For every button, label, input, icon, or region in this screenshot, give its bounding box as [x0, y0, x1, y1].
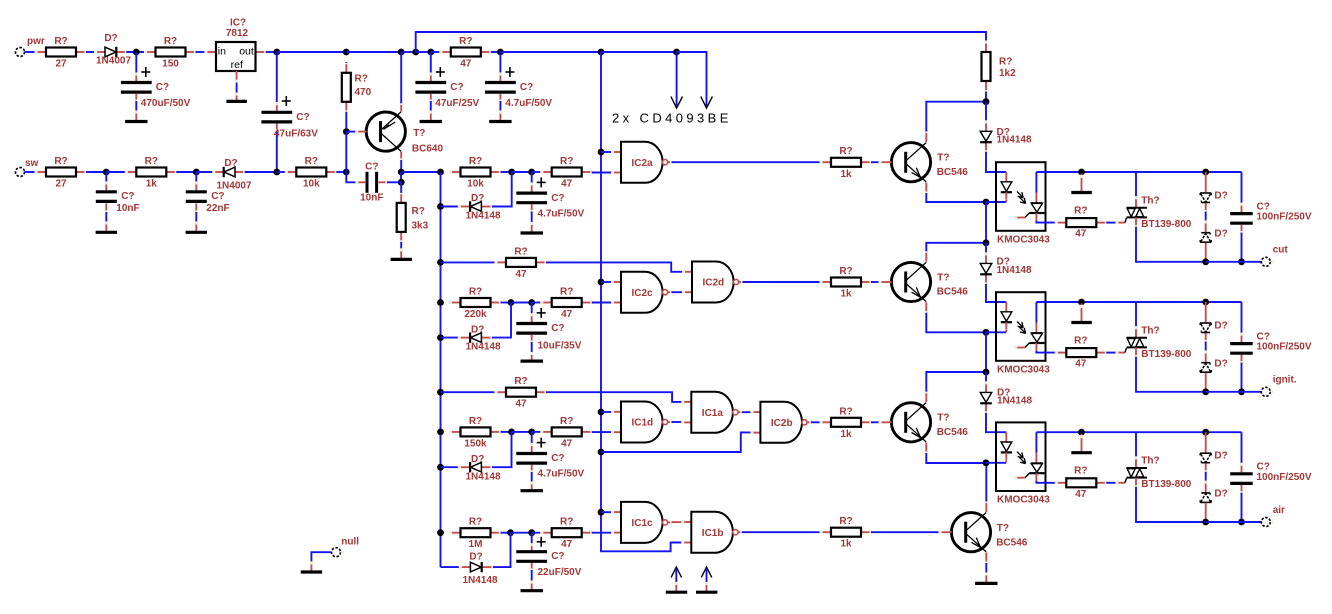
- svg-text:47: 47: [515, 269, 527, 280]
- svg-text:3k3: 3k3: [412, 221, 429, 232]
- wire rail arrow1..arrow2 corner: [677, 52, 707, 54]
- svg-text:C?: C?: [121, 191, 134, 202]
- junction left rail top: [437, 169, 444, 176]
- svg-text:R?: R?: [999, 57, 1012, 68]
- capacitor C? 4.7uF/50V (row C): [516, 432, 584, 489]
- wire ch1 diode..opto anode: [986, 152, 1006, 172]
- junction rowB R47 tap: [437, 259, 444, 266]
- wire T4 collector: [985, 463, 987, 502]
- nand gate IC1d: [611, 402, 673, 443]
- junction rowC 150k tap: [437, 429, 444, 436]
- ground (rowA cap): [521, 231, 544, 234]
- svg-text:100nF/250V: 100nF/250V: [1257, 212, 1312, 223]
- resistor R? 3k3: [397, 191, 429, 243]
- svg-text:IC2d: IC2d: [703, 278, 725, 289]
- svg-text:1N4007: 1N4007: [96, 56, 131, 67]
- svg-text:R?: R?: [54, 36, 67, 47]
- wire rail..R470: [345, 61, 347, 64]
- nand gate IC2c: [611, 272, 673, 313]
- junction rowD 1M tap: [437, 529, 444, 536]
- svg-text:10nF: 10nF: [116, 203, 139, 214]
- junction rowC diode tap: [437, 464, 444, 471]
- svg-text:IC2b: IC2b: [771, 418, 793, 429]
- svg-text:C?: C?: [450, 82, 463, 93]
- resistor R? 150: [144, 36, 197, 70]
- junction ch1 supply: [983, 98, 990, 105]
- svg-text:IC1c: IC1c: [632, 518, 654, 529]
- resistor R? 47 (rail): [439, 36, 492, 70]
- svg-text:47: 47: [515, 399, 527, 410]
- wire R47..triac gate: [1106, 478, 1126, 484]
- svg-text:1k2: 1k2: [999, 68, 1016, 79]
- junction rowB node2: [528, 299, 535, 306]
- svg-text:1k: 1k: [840, 169, 852, 180]
- svg-text:air: air: [1273, 505, 1285, 516]
- transistor T? BC640 (PNP): [355, 102, 443, 162]
- svg-text:27: 27: [55, 179, 67, 190]
- wire rowC rail..diode: [441, 466, 460, 468]
- wire base junction..BC640: [346, 131, 357, 133]
- supply arrow VDD 2: [701, 53, 713, 108]
- label 2x CD4093BE: [612, 111, 732, 126]
- wire rail gaterail..arrow1: [601, 51, 677, 53]
- junction rowA node1: [508, 169, 515, 176]
- wire sw to R: [24, 171, 36, 173]
- svg-text:D?: D?: [1214, 489, 1227, 500]
- wire rail R47..C4u7: [491, 51, 501, 53]
- wire ch3 diode..opto anode: [986, 413, 1006, 432]
- svg-text:R?: R?: [164, 36, 177, 47]
- capacitor C? 100nF/250V (ch2): [1230, 302, 1312, 392]
- wire rail to y32 branch: [401, 51, 416, 53]
- wire gaterail..IC2c top: [601, 281, 613, 283]
- diode D? 1N4148 (ch2): [980, 252, 1032, 285]
- junction rowC node1: [508, 429, 515, 436]
- svg-text:D?: D?: [469, 552, 482, 563]
- svg-text:D?: D?: [471, 324, 484, 335]
- wire IC1d out..IC1a: [672, 421, 683, 423]
- svg-text:22nF: 22nF: [206, 203, 229, 214]
- svg-text:C?: C?: [551, 193, 564, 204]
- svg-text:T?: T?: [937, 153, 949, 164]
- svg-text:T?: T?: [937, 272, 949, 283]
- svg-text:R?: R?: [1074, 205, 1087, 216]
- wire rowB diode..up: [492, 303, 511, 338]
- svg-text:C?: C?: [520, 82, 533, 93]
- wire collector node down: [400, 172, 402, 182]
- ground (VSS arrow 2): [696, 591, 717, 594]
- svg-text:10uF/35V: 10uF/35V: [538, 341, 582, 352]
- wire ch1 bottom rail..terminal: [1206, 261, 1262, 263]
- svg-text:out: out: [239, 46, 254, 58]
- optocoupler KMOC3043 (ch3) box: [996, 422, 1046, 491]
- junction ch1 TVS top: [1202, 169, 1209, 176]
- junction rail BC640 emitter: [398, 49, 405, 56]
- svg-text:D?: D?: [1214, 321, 1227, 332]
- diode D? 1N4148 (row A): [458, 193, 501, 221]
- svg-text:IC2a: IC2a: [632, 158, 654, 169]
- svg-text:47: 47: [561, 438, 573, 449]
- junction gate rail IC2a: [598, 149, 605, 156]
- junction ch2 gnd tap: [1078, 299, 1085, 306]
- wire D1 to node: [126, 51, 145, 53]
- wire rowD node1..node2: [511, 532, 532, 534]
- TVS diode pair D? D? (ch3): [1200, 432, 1228, 522]
- wire rowA node1..node2: [512, 171, 532, 173]
- svg-text:BC546: BC546: [937, 167, 969, 178]
- svg-text:C?: C?: [156, 82, 169, 93]
- opto ch1 phototriac: [1014, 172, 1056, 223]
- svg-text:150k: 150k: [464, 438, 487, 449]
- junction rowD node2: [528, 529, 535, 536]
- junction ch3 gnd tap: [1078, 429, 1085, 436]
- wire 7812 ref to ground: [235, 71, 238, 100]
- svg-text:KMOC3043: KMOC3043: [997, 234, 1050, 245]
- junction sw node2: [193, 169, 200, 176]
- svg-text:D?: D?: [1214, 451, 1227, 462]
- svg-text:D?: D?: [471, 193, 484, 204]
- opto ch3 light arrows: [1017, 452, 1026, 464]
- junction gate rail IC1d: [598, 409, 605, 416]
- svg-text:R?: R?: [839, 266, 852, 277]
- transistor T? BC546 (T2): [879, 250, 969, 314]
- wire BC640 emitter..rail: [400, 52, 402, 103]
- opto ch2 light arrows: [1017, 322, 1026, 334]
- opto ch1 light arrows: [1017, 192, 1026, 204]
- svg-text:IC1b: IC1b: [702, 528, 724, 539]
- wire IC2c out..IC2d: [672, 291, 684, 293]
- wire rail C47u..R47: [431, 51, 441, 53]
- diode D? 1N4007 (pwr): [94, 33, 131, 67]
- svg-text:ref: ref: [231, 59, 243, 71]
- ground (C4.7uF/50V rail): [489, 120, 511, 123]
- opto ch1 label: [997, 234, 1050, 245]
- capacitor C? 10nF (osc): [346, 161, 401, 203]
- supply arrow VDD 1: [671, 52, 683, 108]
- svg-text:sw: sw: [25, 158, 39, 169]
- wire ch2 top rail right: [1136, 301, 1242, 303]
- svg-text:R?: R?: [1074, 335, 1087, 346]
- wire R1k2..junction: [985, 92, 987, 102]
- svg-text:100nF/250V: 100nF/250V: [1257, 472, 1312, 483]
- svg-text:R?: R?: [469, 287, 482, 298]
- svg-text:47uF/63V: 47uF/63V: [274, 129, 318, 140]
- svg-text:Th?: Th?: [1141, 326, 1159, 337]
- wire rowD R47..IC1c: [592, 532, 613, 534]
- svg-text:1k: 1k: [840, 429, 852, 440]
- wire rowA node2..R47: [532, 171, 542, 173]
- wire triac ch2..bottom rail: [1136, 357, 1206, 392]
- junction ch2 cathode node: [983, 329, 990, 336]
- junction rowB diode tap: [437, 334, 444, 341]
- wire ch1 supply..diode: [985, 102, 987, 122]
- junction rowC node2: [528, 429, 535, 436]
- junction rowD node1: [507, 529, 514, 536]
- ground (C22nF): [186, 231, 207, 234]
- svg-text:1N4148: 1N4148: [997, 135, 1032, 146]
- wire opto ch1 top..gnd junction..triac: [1036, 171, 1136, 173]
- junction ch1 TVS bottom: [1202, 258, 1209, 265]
- svg-text:ignit.: ignit.: [1273, 375, 1297, 386]
- wire rowC rail..R47: [441, 391, 497, 393]
- svg-text:KMOC3043: KMOC3043: [997, 495, 1050, 506]
- wire rowD diode..up: [493, 533, 511, 567]
- svg-text:R?: R?: [355, 74, 368, 85]
- wire ch1 cathode..opto: [986, 201, 1006, 203]
- svg-text:470uF/50V: 470uF/50V: [141, 98, 191, 109]
- wire rowD rail..diode: [441, 566, 461, 568]
- wire T1 collector: [926, 102, 986, 132]
- svg-text:R?: R?: [839, 516, 852, 527]
- wire gaterail..IC1c top: [601, 511, 613, 513]
- svg-text:1k: 1k: [840, 289, 852, 300]
- wire left rail vertical: [440, 172, 442, 567]
- svg-text:R?: R?: [560, 287, 573, 298]
- wire IC2a out..R1k: [672, 161, 822, 163]
- wire rowB rail..R47: [441, 261, 497, 263]
- wire node2..D2: [196, 171, 214, 173]
- resistor R? 27 (pwr): [35, 36, 88, 70]
- transistor T? BC546 (T1): [879, 130, 969, 195]
- ground (C10nF sw1): [96, 231, 117, 234]
- capacitor C? 4.7uF/50V (row A): [516, 172, 584, 232]
- resistor R? 1k (row C): [820, 406, 873, 440]
- junction rowA diode tap: [437, 203, 444, 210]
- wire R1k..T1 base: [871, 161, 880, 163]
- ground (C47uF/25V): [420, 120, 442, 123]
- junction gate rail IC2c: [598, 279, 605, 286]
- junction ch2 TVS top: [1202, 299, 1209, 306]
- wire ch2 diode..opto anode: [986, 284, 1006, 302]
- nand gate IC1a: [681, 392, 743, 433]
- junction rowC R47 tap: [437, 389, 444, 396]
- TVS diode pair D? D? (ch2): [1200, 302, 1228, 392]
- wire ch1 top rail right: [1136, 171, 1242, 173]
- ground (rowB cap): [521, 360, 544, 363]
- transistor T? BC546 (T3): [879, 390, 969, 454]
- wire opto ch3 top..gnd junction..triac: [1036, 431, 1136, 433]
- svg-text:C?: C?: [211, 191, 224, 202]
- wire R470..base junction: [345, 112, 347, 132]
- svg-text:1M: 1M: [469, 539, 483, 550]
- svg-text:IC1a: IC1a: [702, 408, 724, 419]
- wire ch2 cathode..opto: [986, 331, 1006, 333]
- wire rowB node1..node2: [511, 302, 532, 304]
- capacitor C? 10nF (sw1): [96, 172, 140, 231]
- ground (R3k3): [391, 248, 412, 259]
- svg-text:1k: 1k: [146, 179, 158, 190]
- svg-text:BC640: BC640: [412, 144, 444, 155]
- wire rail 7812node..R470node: [277, 51, 347, 53]
- ground (ch2): [1071, 304, 1092, 323]
- junction rail C47uF/25V: [427, 49, 434, 56]
- svg-text:T?: T?: [937, 413, 949, 424]
- wire IC1b out..R1k: [742, 531, 821, 533]
- diode D? 1N4148 (ch3): [980, 381, 1032, 414]
- resistor R? 1k (row D): [820, 516, 873, 550]
- resistor R? 1k2: [982, 41, 1017, 94]
- nand gate IC1b: [681, 512, 743, 553]
- resistor R? 150k: [449, 416, 502, 450]
- junction pwr node: [133, 49, 140, 56]
- capacitor C? 100nF/250V (ch1): [1230, 172, 1312, 262]
- svg-text:T?: T?: [997, 523, 1009, 534]
- IC? 7812 regulator: [204, 18, 267, 72]
- svg-text:27: 27: [55, 59, 67, 70]
- wire rowC R47b..IC1d: [592, 431, 613, 433]
- svg-text:R?: R?: [839, 406, 852, 417]
- svg-text:C?: C?: [296, 112, 309, 123]
- wire rowD 1M..node1: [501, 532, 511, 534]
- diode D? 1N4148 (ch1): [980, 120, 1032, 153]
- svg-text:47: 47: [1075, 359, 1087, 370]
- resistor R? 47 (row C in): [540, 416, 593, 450]
- resistor R? 1k (row A): [820, 146, 873, 180]
- wire rail branch..C47uF: [416, 51, 431, 53]
- opto ch2 LED: [1001, 302, 1012, 332]
- wire BC640 collector..node: [400, 160, 402, 172]
- wire IC1a out..IC2b: [742, 411, 752, 413]
- svg-text:4.7uF/50V: 4.7uF/50V: [538, 208, 585, 219]
- optocoupler KMOC3043 (ch1) box: [996, 162, 1046, 231]
- resistor R? 47 (ch1 gate): [1055, 205, 1108, 239]
- nand gate IC2d: [682, 262, 744, 303]
- svg-text:47uF/25V: 47uF/25V: [435, 98, 479, 109]
- terminal null: [332, 537, 360, 557]
- wire R1k..T2 base: [871, 281, 880, 283]
- junction gate rail IC1c: [598, 509, 605, 516]
- opto ch3 LED: [1001, 432, 1012, 462]
- svg-text:D?: D?: [1214, 191, 1227, 202]
- junction rowA node2: [528, 169, 535, 176]
- svg-text:IC1d: IC1d: [632, 418, 654, 429]
- wire ch1 node..T2 collector node: [985, 202, 987, 243]
- wire rowD node2..R47: [532, 532, 542, 534]
- svg-text:KMOC3043: KMOC3043: [997, 364, 1050, 375]
- ground (ch3): [1071, 434, 1092, 453]
- junction ch1 cathode node: [983, 199, 990, 206]
- diode D? 1N4007 (sw): [212, 158, 252, 192]
- svg-text:T?: T?: [413, 128, 425, 139]
- wire R1k..T3 base: [871, 421, 880, 423]
- junction ch3 TVS top: [1202, 429, 1209, 436]
- opto ch2 phototriac: [1014, 302, 1056, 353]
- opto ch2 label: [997, 364, 1050, 375]
- nand gate IC2b: [750, 402, 812, 443]
- svg-text:R?: R?: [560, 517, 573, 528]
- wire T1 emitter: [926, 193, 986, 202]
- wire null..ground: [310, 552, 332, 570]
- wire rowC 150k..node1: [501, 431, 512, 433]
- wire base junction..sw row: [345, 132, 347, 172]
- svg-text:C?: C?: [551, 453, 564, 464]
- wire rowC R47..IC1a top: [546, 392, 683, 402]
- svg-text:BC546: BC546: [996, 537, 1028, 548]
- svg-text:R?: R?: [459, 36, 472, 47]
- wire rowB node2..R47b: [532, 302, 542, 304]
- svg-text:null: null: [341, 537, 359, 548]
- capacitor C? 47uF/25V: [415, 52, 479, 120]
- diode D? 1N4148 (row B): [458, 324, 501, 352]
- wire C10nF node..R3k3: [400, 182, 402, 193]
- svg-text:R?: R?: [560, 156, 573, 167]
- wire R47..triac gate: [1106, 218, 1126, 224]
- nand gate IC1c: [611, 502, 673, 543]
- svg-text:R?: R?: [305, 156, 318, 167]
- svg-text:1N4007: 1N4007: [216, 181, 251, 192]
- svg-text:47: 47: [1075, 229, 1087, 240]
- wire rowA R47..IC2a: [592, 172, 613, 174]
- svg-text:47: 47: [561, 539, 573, 550]
- junction sw base node: [343, 169, 350, 176]
- capacitor C? 22nF: [186, 172, 230, 231]
- junction rail C4.7uF/50V: [497, 49, 504, 56]
- svg-text:R?: R?: [839, 146, 852, 157]
- terminal ignit. (ch2): [1261, 375, 1297, 397]
- opto ch3 label: [997, 495, 1050, 506]
- svg-text:220k: 220k: [464, 309, 487, 320]
- wire gaterail..IC1d top: [601, 411, 613, 413]
- svg-text:BT139-800: BT139-800: [1141, 349, 1191, 360]
- svg-text:7812: 7812: [226, 28, 249, 39]
- capacitor C? 47uF/63V: [261, 52, 318, 172]
- wire rowC node2..R47b: [532, 431, 542, 433]
- svg-text:10nF: 10nF: [360, 193, 383, 204]
- wire top rail y32: [416, 32, 986, 52]
- svg-text:R?: R?: [1074, 466, 1087, 477]
- junction rail VDD arrow1: [673, 49, 680, 56]
- resistor R? 1M: [449, 517, 502, 551]
- wire T2 collector: [926, 243, 986, 252]
- junction ch1 gnd tap: [1078, 169, 1085, 176]
- svg-text:R?: R?: [514, 246, 527, 257]
- ground (rowC cap): [521, 489, 544, 492]
- junction 12V at 7812 out: [273, 49, 280, 56]
- wire T4 emitter: [985, 563, 987, 574]
- ground (7812 ref): [226, 100, 247, 103]
- wire ch3 cathode..opto: [986, 462, 1006, 464]
- wire IC1c out..IC1b: [672, 521, 683, 523]
- svg-text:D?: D?: [1214, 359, 1227, 370]
- svg-text:47: 47: [561, 179, 573, 190]
- wire rowB 220k..node1: [501, 302, 512, 304]
- svg-text:D?: D?: [1214, 229, 1227, 240]
- svg-text:D?: D?: [104, 33, 117, 44]
- svg-text:R?: R?: [514, 376, 527, 387]
- junction rail R470: [343, 49, 350, 56]
- resistor R? 470: [342, 61, 372, 113]
- wire node1..R1k: [106, 171, 126, 173]
- wire sw R27..node1: [86, 171, 106, 173]
- svg-text:47: 47: [561, 309, 573, 320]
- junction ch2 cap bottom: [1238, 388, 1245, 395]
- terminal air (ch3): [1261, 505, 1285, 527]
- wire gate rail vertical: [601, 52, 683, 551]
- wire gaterail..IC2a top: [601, 151, 613, 153]
- wire ch2 node..T3 collector node: [985, 332, 987, 372]
- svg-text:BT139-800: BT139-800: [1141, 479, 1191, 490]
- svg-text:R?: R?: [469, 517, 482, 528]
- wire ch3 supply..diode: [985, 372, 987, 383]
- svg-text:BC546: BC546: [937, 427, 969, 438]
- svg-text:10k: 10k: [303, 179, 320, 190]
- wire triac ch1..bottom rail: [1136, 227, 1206, 262]
- resistor R? 47 (row D in): [540, 517, 593, 551]
- svg-text:R?: R?: [560, 416, 573, 427]
- svg-text:pwr: pwr: [27, 36, 45, 47]
- resistor R? 47 (ch2 gate): [1055, 335, 1108, 369]
- wire T3 collector: [926, 372, 986, 392]
